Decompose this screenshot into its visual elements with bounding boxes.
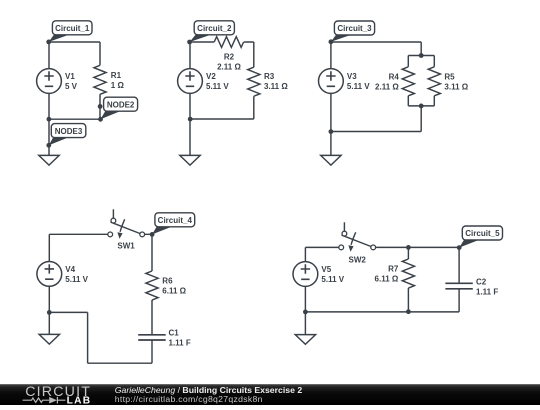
voltage source V2 <box>178 69 203 94</box>
CircuitLab logo <box>23 384 92 406</box>
junction circuit5 bottom-left <box>303 310 308 315</box>
junction circuit3 parallel top <box>419 53 424 58</box>
wire circuit5 C2 branch <box>458 247 460 312</box>
label V2 value <box>206 72 229 91</box>
svg-text:6.11 Ω: 6.11 Ω <box>375 275 399 284</box>
svg-text:R4: R4 <box>389 73 400 82</box>
svg-text:1.11 F: 1.11 F <box>476 287 498 296</box>
svg-text:R6: R6 <box>162 277 173 286</box>
resistor R4 <box>402 67 414 96</box>
svg-text:5.11 V: 5.11 V <box>321 275 344 284</box>
node flag NODE3 <box>46 124 85 148</box>
svg-text:V4: V4 <box>65 265 75 274</box>
wire circuit3 ground lead <box>330 132 332 156</box>
wire circuit4 left branch <box>48 234 50 334</box>
wire circuit3 R4 leads <box>407 56 409 106</box>
svg-text:http://circuitlab.com/cg8q27qz: http://circuitlab.com/cg8q27qzdsk8n <box>115 394 263 404</box>
ground circuit1 <box>39 155 59 165</box>
resistor R3 <box>248 67 260 96</box>
svg-text:5.11 V: 5.11 V <box>65 275 88 284</box>
svg-text:SW2: SW2 <box>349 255 367 264</box>
ground circuit2 <box>180 155 200 165</box>
svg-text:V5: V5 <box>321 265 331 274</box>
wire circuit3 top rail <box>331 41 421 43</box>
svg-text:R3: R3 <box>264 72 275 81</box>
voltage source V4 <box>37 262 62 287</box>
node flag Circuit_1 <box>46 21 92 45</box>
node flag Circuit_2 <box>187 21 234 45</box>
junction circuit1 bottom-left <box>47 117 52 122</box>
label C1 value <box>169 328 191 347</box>
wire circuit3 parallel bottom link <box>408 105 434 107</box>
node flag NODE2 <box>98 97 138 122</box>
junction circuit4 bottom-left <box>47 310 52 315</box>
wire circuit1 bottom rail <box>49 118 100 120</box>
wire circuit3 stem bottom <box>420 106 422 132</box>
label R7 value <box>375 265 399 284</box>
voltage source V5 <box>293 262 318 287</box>
svg-text:6.11 Ω: 6.11 Ω <box>162 287 186 296</box>
label V3 value <box>347 72 370 91</box>
svg-text:Circuit_2: Circuit_2 <box>197 24 232 33</box>
capacitor C2 <box>445 283 472 289</box>
capacitor C1 <box>138 335 166 340</box>
wire circuit1 right branch <box>99 42 101 119</box>
wire circuit3 stem top <box>420 42 422 56</box>
label C2 value <box>476 277 498 296</box>
svg-text:5.11 V: 5.11 V <box>206 82 229 91</box>
svg-text:Circuit_1: Circuit_1 <box>55 24 90 33</box>
junction circuit3 bottom-left <box>329 129 334 134</box>
node flag Circuit_4 <box>150 213 195 237</box>
junction circuit1 NODE2 wire dot <box>98 104 103 109</box>
label V4 value <box>65 265 88 284</box>
label R6 value <box>162 277 186 296</box>
label R2 value <box>217 53 241 72</box>
svg-text:V1: V1 <box>65 72 75 81</box>
voltage source V3 <box>319 69 344 94</box>
junction circuit3 parallel bottom <box>419 104 424 109</box>
svg-text:SW1: SW1 <box>117 241 135 250</box>
ground circuit4 <box>39 334 59 344</box>
label V1 value <box>65 72 78 91</box>
ground circuit5 <box>295 335 315 345</box>
junction circuit5 R7 bottom <box>406 309 411 314</box>
svg-text:C2: C2 <box>476 277 487 286</box>
svg-text:LAB: LAB <box>67 396 92 405</box>
wire circuit2 bottom rail <box>190 118 254 120</box>
node flag Circuit_3 <box>329 21 375 44</box>
svg-text:Circuit_5: Circuit_5 <box>465 229 500 238</box>
wire circuit4 R6 branch <box>151 234 153 334</box>
resistor R1 <box>94 65 106 94</box>
resistor R7 <box>402 259 414 288</box>
wire circuit4 return path <box>49 312 152 363</box>
wire circuit4 top rail <box>49 233 152 235</box>
label R1 value <box>111 71 125 90</box>
junction circuit2 bottom-left <box>188 117 193 122</box>
svg-text:5.11 V: 5.11 V <box>347 82 370 91</box>
wire circuit5 left branch <box>304 247 306 334</box>
junction circuit5 R7 top <box>406 245 411 250</box>
svg-text:R7: R7 <box>388 265 399 274</box>
wire circuit1 top rail <box>49 41 100 43</box>
label R3 value <box>264 72 288 91</box>
svg-text:3.11 Ω: 3.11 Ω <box>444 83 468 92</box>
wire circuit5 top rail <box>305 246 459 248</box>
svg-text:5 V: 5 V <box>65 82 78 91</box>
wire circuit3 bottom rail <box>331 131 421 133</box>
ground circuit3 <box>321 155 341 165</box>
svg-text:NODE2: NODE2 <box>107 100 135 109</box>
wire circuit4 C1 bottom lead <box>151 340 153 363</box>
switch SW2 <box>339 222 376 251</box>
label R5 value <box>444 73 468 92</box>
voltage source V1 <box>37 69 62 94</box>
svg-text:Circuit_4: Circuit_4 <box>158 216 193 225</box>
svg-text:3.11 Ω: 3.11 Ω <box>264 82 288 91</box>
svg-text:R2: R2 <box>224 53 235 62</box>
wire circuit2 top rail <box>190 41 254 43</box>
wire circuit5 bottom rail <box>305 311 459 313</box>
label R4 value <box>375 73 399 92</box>
svg-text:1.11 F: 1.11 F <box>169 338 191 347</box>
svg-text:V2: V2 <box>206 72 216 81</box>
svg-text:V3: V3 <box>347 72 357 81</box>
svg-text:2.11 Ω: 2.11 Ω <box>375 83 399 92</box>
wire circuit3 left branch <box>330 42 332 132</box>
wire circuit5 R7 branch <box>407 247 409 312</box>
svg-text:Circuit_3: Circuit_3 <box>337 24 372 33</box>
svg-text:2.11 Ω: 2.11 Ω <box>217 63 241 72</box>
node flag Circuit_5 <box>457 226 503 250</box>
label V5 value <box>321 265 344 284</box>
svg-text:R5: R5 <box>444 73 455 82</box>
svg-text:R1: R1 <box>111 71 122 80</box>
wire circuit2 left branch <box>189 42 191 155</box>
resistor R5 <box>428 67 440 96</box>
resistor R2 <box>214 37 243 48</box>
switch SW1 <box>108 209 145 238</box>
svg-text:1 Ω: 1 Ω <box>111 81 125 90</box>
resistor R6 <box>146 271 158 300</box>
wire circuit2 right branch <box>253 42 255 119</box>
svg-text:C1: C1 <box>169 328 180 337</box>
svg-text:NODE3: NODE3 <box>55 127 83 136</box>
wire circuit3 parallel top link <box>408 55 434 57</box>
wire circuit3 R5 leads <box>433 56 435 106</box>
wire circuit1 left branch <box>48 42 50 155</box>
